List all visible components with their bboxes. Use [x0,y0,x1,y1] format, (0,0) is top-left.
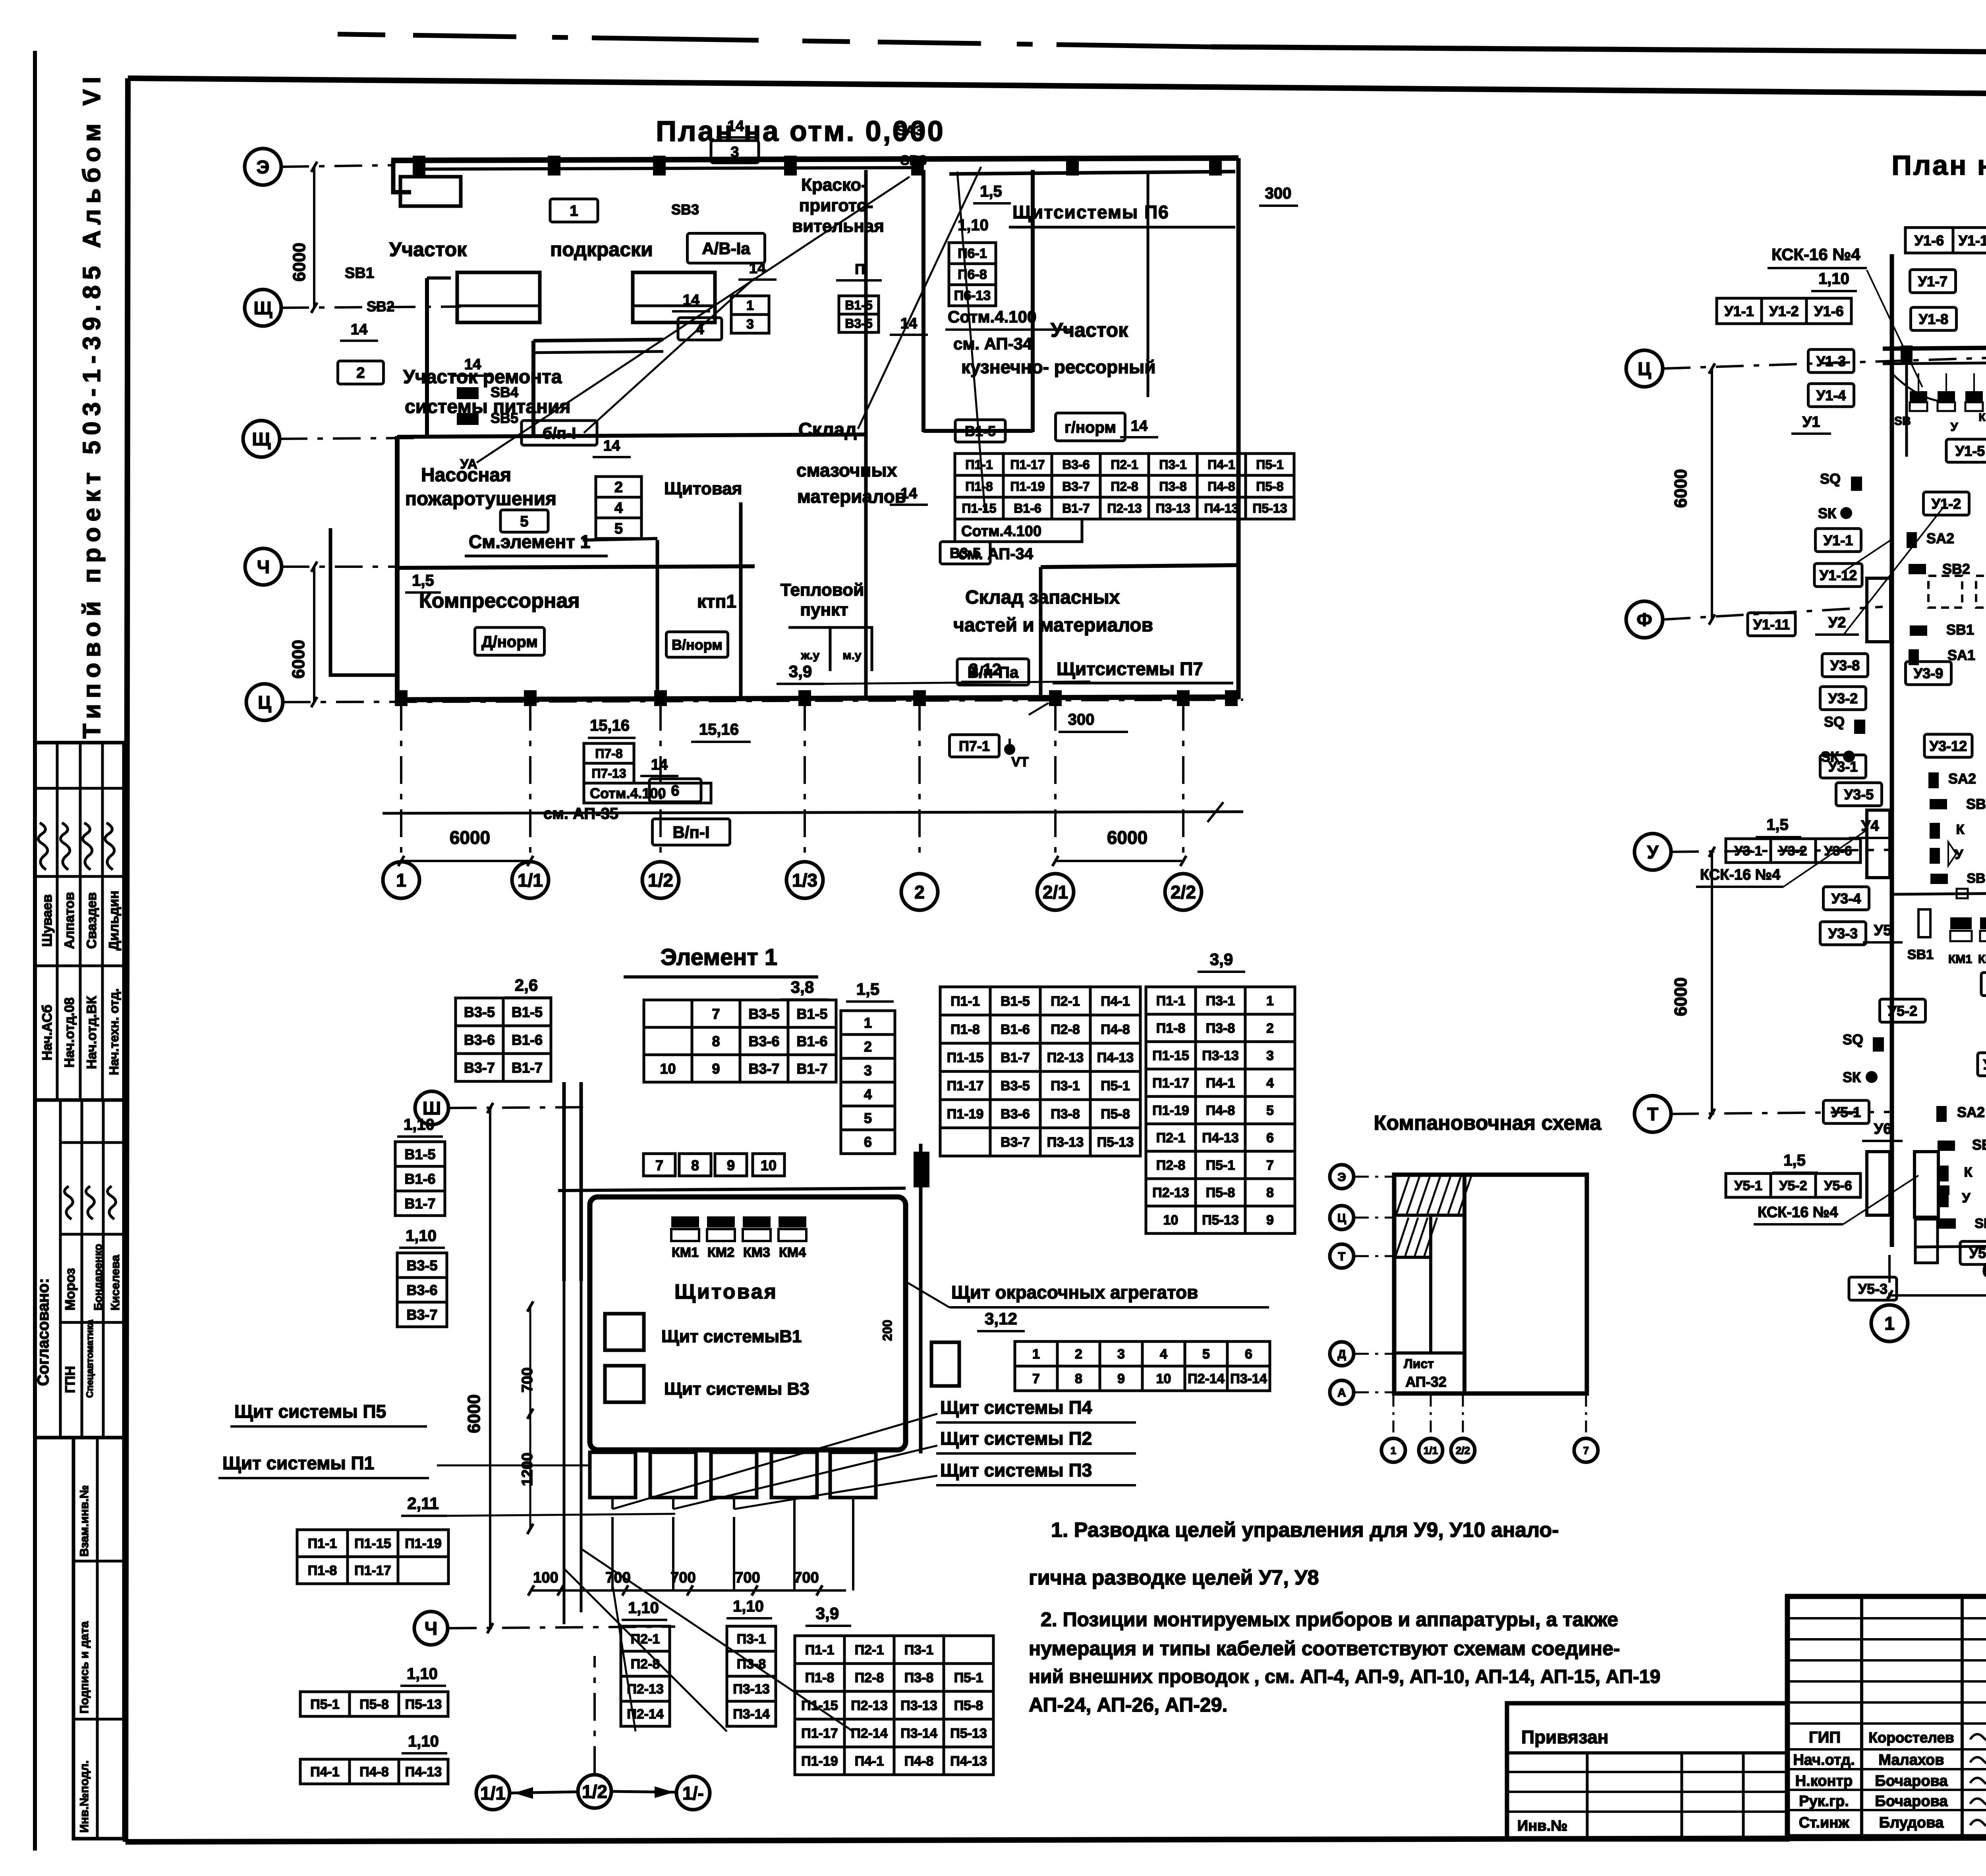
svg-text:П2-14: П2-14 [851,1726,888,1741]
wall краско vertical 2 [1031,170,1035,432]
label box У5-4 [1960,1241,1986,1264]
svg-text:В3-7: В3-7 [406,1307,437,1323]
svg-text:700: 700 [605,1569,630,1586]
small box right elem1 [931,1342,959,1386]
axis circle Ф [1626,601,1663,638]
svg-text:П1-8: П1-8 [805,1670,835,1685]
svg-text:П5-8: П5-8 [1101,1107,1130,1122]
svg-text:1: 1 [864,1015,872,1031]
label Сотм.4.100 АП-34 top [945,307,1072,353]
label box У5-3 [1849,1277,1897,1300]
svg-text:У1-6: У1-6 [1814,303,1843,319]
svg-text:6000: 6000 [1982,1260,1986,1281]
svg-text:4: 4 [1160,1347,1167,1362]
svg-text:700: 700 [670,1569,695,1586]
small icons row под Ц [1894,391,1986,434]
axis circle 1/- [676,1776,710,1810]
svg-text:3,12: 3,12 [969,660,1001,679]
label SB2 icon [1909,561,1970,577]
svg-text:г/норм: г/норм [1064,419,1116,436]
svg-text:6000: 6000 [289,640,308,679]
svg-text:1,10: 1,10 [406,1227,437,1245]
scan edge dashes top [338,34,1211,47]
axis circle 2 [901,874,938,910]
axis circle 2/2 [1165,874,1202,910]
table 2... [596,477,641,538]
svg-text:У5-6: У5-6 [1824,1178,1852,1193]
svg-text:SК: SК [1843,1069,1861,1085]
svg-text:8: 8 [691,1157,699,1173]
svg-text:КМ3: КМ3 [743,1245,770,1260]
room label Склад запасных частей [953,587,1153,636]
svg-text:Щитсистемы П6: Щитсистемы П6 [1012,202,1169,222]
label box В1-5 [955,420,1005,442]
frame top border [128,78,1986,98]
label box У3-8 [1822,654,1868,677]
label 3,12 mid [961,660,1011,682]
svg-text:П3-14: П3-14 [733,1707,770,1722]
axis circle Э [1330,1165,1354,1189]
svg-text:Согласовано:: Согласовано: [35,1278,52,1386]
svg-text:П1-19: П1-19 [405,1536,442,1551]
svg-text:материалов: материалов [797,486,906,507]
svg-text:П4-13: П4-13 [1204,501,1238,515]
svg-text:Щ: Щ [252,429,271,450]
label 3,9 lower [806,1604,851,1626]
svg-text:Ч: Ч [257,557,270,577]
svg-text:В1-7: В1-7 [1062,501,1090,515]
svg-text:Склад: Склад [798,419,857,440]
label box У1-11 [1748,613,1795,636]
svg-text:Щит системы П2: Щит системы П2 [940,1428,1092,1449]
svg-text:10: 10 [660,1060,676,1077]
svg-text:П2-8: П2-8 [1156,1158,1186,1173]
label 3,9 mid [777,662,1090,684]
box Щит системы В1 [605,1314,644,1350]
svg-text:П4-13: П4-13 [950,1754,987,1769]
svg-text:П2-14: П2-14 [627,1707,664,1722]
svg-text:У5: У5 [1874,922,1892,939]
svg-text:П1-17: П1-17 [354,1563,391,1578]
label box У3-2 [1820,687,1866,710]
svg-text:нумерация и типы кабелей с: нумерация и типы кабелей соответствуют с… [1029,1637,1620,1660]
axis circle Т [1330,1244,1354,1268]
table [1717,298,1851,324]
svg-text:SQ: SQ [1820,471,1841,487]
svg-text:ж.у: ж.у [801,649,820,662]
table [1726,839,1860,863]
svg-text:П1-1: П1-1 [308,1536,337,1551]
arrows between elem1 circles [510,1787,676,1798]
Привязан box [1507,1703,1787,1839]
svg-text:см. АП-34: см. АП-34 [958,545,1034,563]
svg-text:1: 1 [746,298,754,313]
table 1... [841,1011,895,1154]
svg-text:Коростелев: Коростелев [1868,1729,1954,1746]
svg-text:8: 8 [1075,1371,1082,1386]
svg-text:П3-1: П3-1 [737,1632,766,1647]
svg-text:1/1: 1/1 [518,870,543,891]
svg-text:В3-5: В3-5 [1001,1079,1030,1094]
svg-text:SВ2: SВ2 [367,298,394,315]
svg-text:П2-8: П2-8 [1111,479,1138,494]
axis line Щ2 [280,438,415,439]
svg-text:П5-13: П5-13 [1202,1213,1239,1228]
svg-text:В1-5: В1-5 [404,1146,435,1162]
svg-text:9: 9 [727,1157,735,1173]
svg-text:Т: Т [1647,1104,1658,1125]
schema key plan rect [1394,1175,1587,1393]
svg-text:14: 14 [900,485,917,502]
room label Участок подкраски [389,238,653,261]
svg-text:П1-1: П1-1 [965,457,993,472]
svg-text:6: 6 [671,783,679,799]
equipment rect подкраска 1 [457,272,540,322]
axis circle Т [1634,1096,1671,1132]
wall краско vertical 1 [922,170,925,432]
frame bottom border [126,1837,1986,1842]
svg-text:В1-6: В1-6 [512,1032,543,1048]
svg-text:1/3: 1/3 [792,870,817,891]
svg-text:КМ2: КМ2 [707,1245,734,1260]
box Щит системы В3 [605,1366,644,1402]
svg-text:14: 14 [603,438,620,454]
svg-text:3: 3 [1266,1048,1274,1063]
svg-text:УА: УА [460,457,477,472]
sidebar Согласовано section frame [35,1100,124,1438]
svg-text:1/2: 1/2 [648,870,673,891]
svg-text:П4-13: П4-13 [1097,1050,1134,1065]
table [1905,228,1986,253]
svg-text:П5-8: П5-8 [954,1698,983,1713]
labels SВ4 SВ5 [457,384,518,426]
svg-text:14: 14 [900,315,917,332]
schema hatch zone 2 [1396,1218,1437,1256]
svg-text:1. Разводка целей управления: 1. Разводка целей управления для У9, У10… [1051,1519,1559,1542]
wall кузнечно left [1147,174,1149,397]
svg-text:П1-8: П1-8 [308,1563,337,1578]
label 1,5 bottom left [1772,1152,1818,1173]
room label Тепловой пункт [780,580,864,620]
schema horizontal lines [1394,1215,1464,1353]
dim 6000 bottom right [1053,827,1186,866]
svg-text:У5-1: У5-1 [1734,1178,1762,1193]
svg-text:6000: 6000 [450,827,490,848]
svg-text:7: 7 [1266,1158,1274,1173]
wall тепловой right vertical [1039,567,1043,698]
svg-text:300: 300 [1265,185,1292,202]
svg-text:ГПН: ГПН [63,1366,78,1393]
boxes У1-3 У1-4 У1 column [1791,349,1854,434]
svg-text:В1-5: В1-5 [796,1006,827,1022]
label 1,10 П4 [402,1733,447,1753]
axis circle 1 [1381,1438,1405,1462]
svg-text:3: 3 [864,1062,872,1079]
label 300 bottom [1059,711,1128,732]
svg-text:Сотм.4.100: Сотм.4.100 [948,307,1036,326]
svg-text:У3-2: У3-2 [1779,843,1807,859]
svg-text:SВ4: SВ4 [491,384,518,400]
svg-text:2/2: 2/2 [1171,882,1196,903]
svg-text:П5-1: П5-1 [1101,1079,1130,1094]
label box У3-3 [1820,922,1866,945]
title block signature rows [1787,1749,1986,1810]
label box У3-5 [1836,783,1882,806]
axis circle Ц [246,684,283,720]
svg-text:SА2: SА2 [1926,530,1954,546]
svg-text:Нач.отд.08: Нач.отд.08 [62,998,77,1068]
svg-text:П1-15: П1-15 [947,1050,984,1065]
boxes 7 8 9 10 row [643,1154,784,1176]
svg-text:2: 2 [356,365,365,382]
svg-text:В3-6: В3-6 [1062,457,1090,472]
label box У5-2 [1880,999,1926,1022]
label box 2 [338,361,384,384]
svg-text:14: 14 [727,118,744,135]
icon У bottom + SB [1938,1191,1986,1231]
svg-text:П2-1: П2-1 [1156,1131,1186,1146]
svg-text:Э: Э [1337,1171,1346,1184]
svg-text:ГИП: ГИП [1809,1729,1841,1746]
corridor horizontal line У [1892,889,1986,898]
label box А/В-Iа [688,234,765,263]
svg-text:1,5: 1,5 [980,183,1002,200]
svg-text:Ц: Ц [258,692,271,713]
svg-text:У5-3: У5-3 [1858,1281,1887,1297]
Привязан box table [1507,1753,1787,1839]
svg-text:1: 1 [1032,1347,1040,1362]
wall склад смазочных left [864,170,868,596]
svg-text:1/-: 1/- [682,1783,704,1804]
wire diagonal to УА [477,177,910,463]
wire див line щит [1029,703,1049,715]
svg-text:В3-6: В3-6 [464,1032,495,1048]
svg-text:7: 7 [1032,1371,1040,1386]
vertical dim Ц-Ф right plan [1671,363,1715,625]
svg-text:У: У [1647,842,1659,863]
svg-text:П1-15: П1-15 [354,1536,391,1551]
right plan top wall [1883,345,1986,364]
svg-text:6: 6 [1245,1347,1252,1362]
label box У3-1 [1820,755,1866,778]
svg-text:У5-2: У5-2 [1888,1003,1917,1019]
svg-text:частей и материалов: частей и материалов [953,615,1153,636]
svg-text:9: 9 [712,1060,720,1077]
svg-text:6000: 6000 [464,1394,484,1433]
table [1726,1173,1860,1197]
svg-text:Тепловой: Тепловой [780,580,864,600]
label КСК-16 №4 top [1768,245,1867,268]
svg-text:П3-13: П3-13 [1202,1048,1239,1063]
label КСК-16№4 bottom [1754,1175,1918,1224]
label У4 [1849,818,1891,838]
svg-text:Н.контр: Н.контр [1795,1773,1853,1789]
svg-text:3,12: 3,12 [985,1309,1017,1328]
svg-text:П1-8: П1-8 [1156,1021,1186,1036]
building top wall [391,158,1238,160]
vertical dim Ш-Ч 6000 [464,1103,493,1633]
svg-text:П7-1: П7-1 [959,738,990,754]
label box У3-12 [1924,734,1972,757]
label box П7-1 [950,735,999,757]
svg-text:П1-1: П1-1 [805,1642,835,1658]
label SA2 icon [1907,530,1954,548]
label КСК-16№4 mid [1696,830,1867,887]
svg-text:П2-14: П2-14 [1188,1371,1225,1386]
wall компрессорная top [397,566,755,568]
svg-text:П1-8: П1-8 [950,1022,980,1037]
table [795,1636,993,1775]
svg-text:9: 9 [1117,1371,1125,1386]
label 1,5 left mid [1756,816,1801,837]
svg-text:К: К [1978,411,1986,423]
wall склад запчастей top [1041,565,1238,567]
svg-text:700: 700 [794,1569,819,1586]
svg-text:Сотм.4.100: Сотм.4.100 [590,785,666,801]
svg-text:П3-8: П3-8 [904,1670,934,1685]
title block thin rows [1787,1618,1986,1724]
svg-text:6: 6 [864,1134,872,1150]
label 14 group [340,118,1158,776]
svg-text:Нач.отд.: Нач.отд. [1793,1752,1855,1768]
sidebar signature table frame [35,743,124,1100]
svg-text:14: 14 [1131,418,1148,434]
diagonal wires lower elem1 [564,1549,853,1731]
svg-text:План на отм. 0,000: План на отм. 0,000 [1891,150,1986,181]
svg-text:Щит системыВ1: Щит системыВ1 [661,1327,802,1346]
svg-text:АП-32: АП-32 [1405,1374,1446,1390]
svg-text:см. АП-34: см. АП-34 [953,334,1032,353]
svg-text:3,9: 3,9 [1210,950,1233,969]
svg-text:П2-1: П2-1 [631,1632,660,1647]
svg-text:У1: У1 [1802,414,1820,430]
КМ contactor black boxes [671,1216,806,1241]
axis circle 1/2 [642,862,679,898]
svg-text:2: 2 [914,882,925,903]
svg-text:2/2: 2/2 [1456,1444,1470,1456]
svg-text:1,10: 1,10 [408,1733,439,1750]
svg-text:SQ: SQ [1824,714,1845,730]
svg-text:14: 14 [683,292,699,309]
label box г/норм [1056,413,1125,441]
svg-text:У6: У6 [1874,1121,1892,1137]
svg-text:1: 1 [1266,994,1274,1009]
svg-text:Подпись и дата: Подпись и дата [78,1621,91,1714]
svg-text:1/2: 1/2 [582,1781,607,1802]
room label Краско-приготовительная [792,175,884,236]
svg-text:Щитовая: Щитовая [664,479,742,498]
frame left border [126,78,128,1842]
label 1,10 В3 [399,1227,445,1248]
label 1,10 П5 [400,1665,446,1686]
svg-text:Щит системы В3: Щит системы В3 [664,1379,809,1399]
dim 6000 right plan bottom [1887,1260,1986,1301]
svg-text:В1-6: В1-6 [1014,501,1041,515]
label box У1-2 [1924,492,1969,515]
svg-text:П4-1: П4-1 [1206,1076,1235,1091]
labels SQ SK row1 [1818,471,1862,521]
room label Участок кузнечно-рессорный [961,319,1156,377]
svg-text:П6-13: П6-13 [954,288,991,303]
svg-text:П3-8: П3-8 [1159,479,1186,494]
svg-text:У1-1: У1-1 [1724,303,1754,319]
elem1 right wall structure [914,1144,929,1453]
svg-text:14: 14 [351,321,367,338]
svg-text:В1-6: В1-6 [404,1171,435,1187]
svg-text:5: 5 [1266,1103,1274,1118]
svg-text:1,10: 1,10 [733,1598,764,1615]
underlined label Щитсистемы П7 [1053,658,1233,683]
svg-text:У1-4: У1-4 [1816,387,1846,403]
svg-text:ний внешних проводок , см.: ний внешних проводок , см. АП-4, АП-9, А… [1029,1666,1660,1687]
svg-text:SВ: SВ [1894,415,1911,428]
svg-text:Ст.инж: Ст.инж [1799,1814,1850,1831]
svg-text:Инв.№подл.: Инв.№подл. [78,1760,91,1833]
svg-text:1/1: 1/1 [1424,1444,1438,1456]
dashed boxes У3 [1928,576,1986,615]
right plan bottom wall line [1915,1231,1986,1263]
svg-text:П5-1: П5-1 [310,1697,340,1712]
top wall column tabs [413,156,1222,176]
svg-text:Инв.№: Инв.№ [1517,1818,1568,1834]
svg-text:SВ5: SВ5 [491,410,518,426]
label 15,16 right [691,721,751,742]
svg-text:П1-1: П1-1 [1156,994,1186,1009]
svg-text:П: П [855,261,865,277]
svg-text:5: 5 [614,521,623,537]
svg-text:П6-1: П6-1 [958,246,987,261]
svg-text:100: 100 [533,1569,558,1586]
vertical dim У-Т right plan [1671,847,1715,1119]
axis circle 1 [383,862,419,898]
svg-text:7: 7 [712,1006,720,1022]
axis circle 7 [1574,1438,1598,1462]
elem1 lower vertical wires [564,1281,853,1624]
label SA2 icon 2 [1928,770,1976,788]
icon У arrow mid [1930,842,1963,866]
wall щитовая bottom [583,538,657,540]
svg-text:Краско-: Краско- [801,175,867,195]
svg-text:10: 10 [1156,1371,1171,1386]
svg-text:подкраски: подкраски [550,238,653,261]
svg-text:5: 5 [864,1110,872,1126]
svg-text:П5-13: П5-13 [950,1726,987,1741]
table [955,454,1294,519]
svg-text:У1-6: У1-6 [1915,232,1944,249]
axis circle 1 [1871,1305,1908,1341]
svg-text:П2-1: П2-1 [1051,994,1080,1009]
svg-text:П3-13: П3-13 [1155,501,1190,515]
svg-text:П2-1: П2-1 [1111,457,1138,472]
svg-text:Щ: Щ [254,298,272,318]
svg-text:4: 4 [864,1086,872,1102]
svg-text:У3-2: У3-2 [1828,690,1858,706]
label box б/п-I [522,421,597,445]
svg-text:П3-13: П3-13 [1047,1135,1084,1150]
svg-text:В3-6: В3-6 [1001,1107,1030,1122]
bottom axis dashdots right plan [1889,1255,1986,1305]
label 1,10 П2 [622,1599,667,1620]
svg-text:Щит системы П1: Щит системы П1 [222,1453,374,1473]
svg-text:SК: SК [1818,505,1837,521]
svg-text:У5-12: У5-12 [1983,1056,1986,1073]
equipment rect подкраска small [400,177,461,206]
svg-text:1,5: 1,5 [1766,816,1789,834]
dim row 100 700 700 700 700 [528,1569,846,1596]
svg-text:700: 700 [735,1569,760,1586]
svg-text:Шуваев: Шуваев [40,894,55,947]
svg-text:6: 6 [1266,1131,1274,1146]
